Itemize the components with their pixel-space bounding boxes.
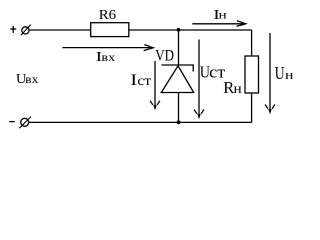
svg-text:U: U bbox=[275, 63, 285, 83]
svg-text:н: н bbox=[234, 82, 243, 97]
svg-text:вх: вх bbox=[101, 50, 115, 64]
svg-text:R6: R6 bbox=[99, 8, 116, 23]
svg-text:н: н bbox=[285, 67, 293, 82]
svg-text:I: I bbox=[130, 72, 137, 89]
svg-text:вх: вх bbox=[25, 72, 38, 86]
svg-text:н: н bbox=[219, 9, 227, 21]
svg-text:ст: ст bbox=[137, 74, 151, 89]
svg-text:VD: VD bbox=[155, 47, 174, 64]
